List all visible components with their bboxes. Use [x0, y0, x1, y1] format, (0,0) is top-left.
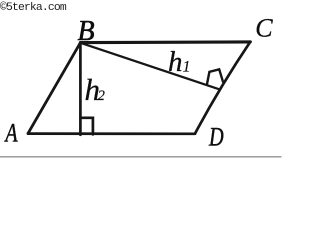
- wire CD: [195, 42, 250, 134]
- svg-text:©5terka.com: ©5terka.com: [0, 2, 67, 14]
- wire BC: [80, 40, 250, 44]
- svg-text:D: D: [208, 123, 224, 152]
- right-angle marker at foot of h1: [207, 69, 223, 84]
- right-angle marker at foot of h2: [80, 118, 93, 135]
- height h1 from B to CD: [80, 43, 219, 90]
- svg-text:A: A: [4, 119, 19, 148]
- wire AD: [28, 132, 195, 135]
- svg-text:C: C: [255, 14, 273, 43]
- wire AB: [28, 43, 80, 134]
- svg-text:B: B: [78, 16, 95, 47]
- svg-text:h: h: [168, 46, 183, 78]
- svg-text:2: 2: [98, 88, 105, 104]
- bottom gray rule: [0, 156, 282, 157]
- height h2 from B to AD: [79, 43, 82, 135]
- svg-text:1: 1: [183, 59, 191, 76]
